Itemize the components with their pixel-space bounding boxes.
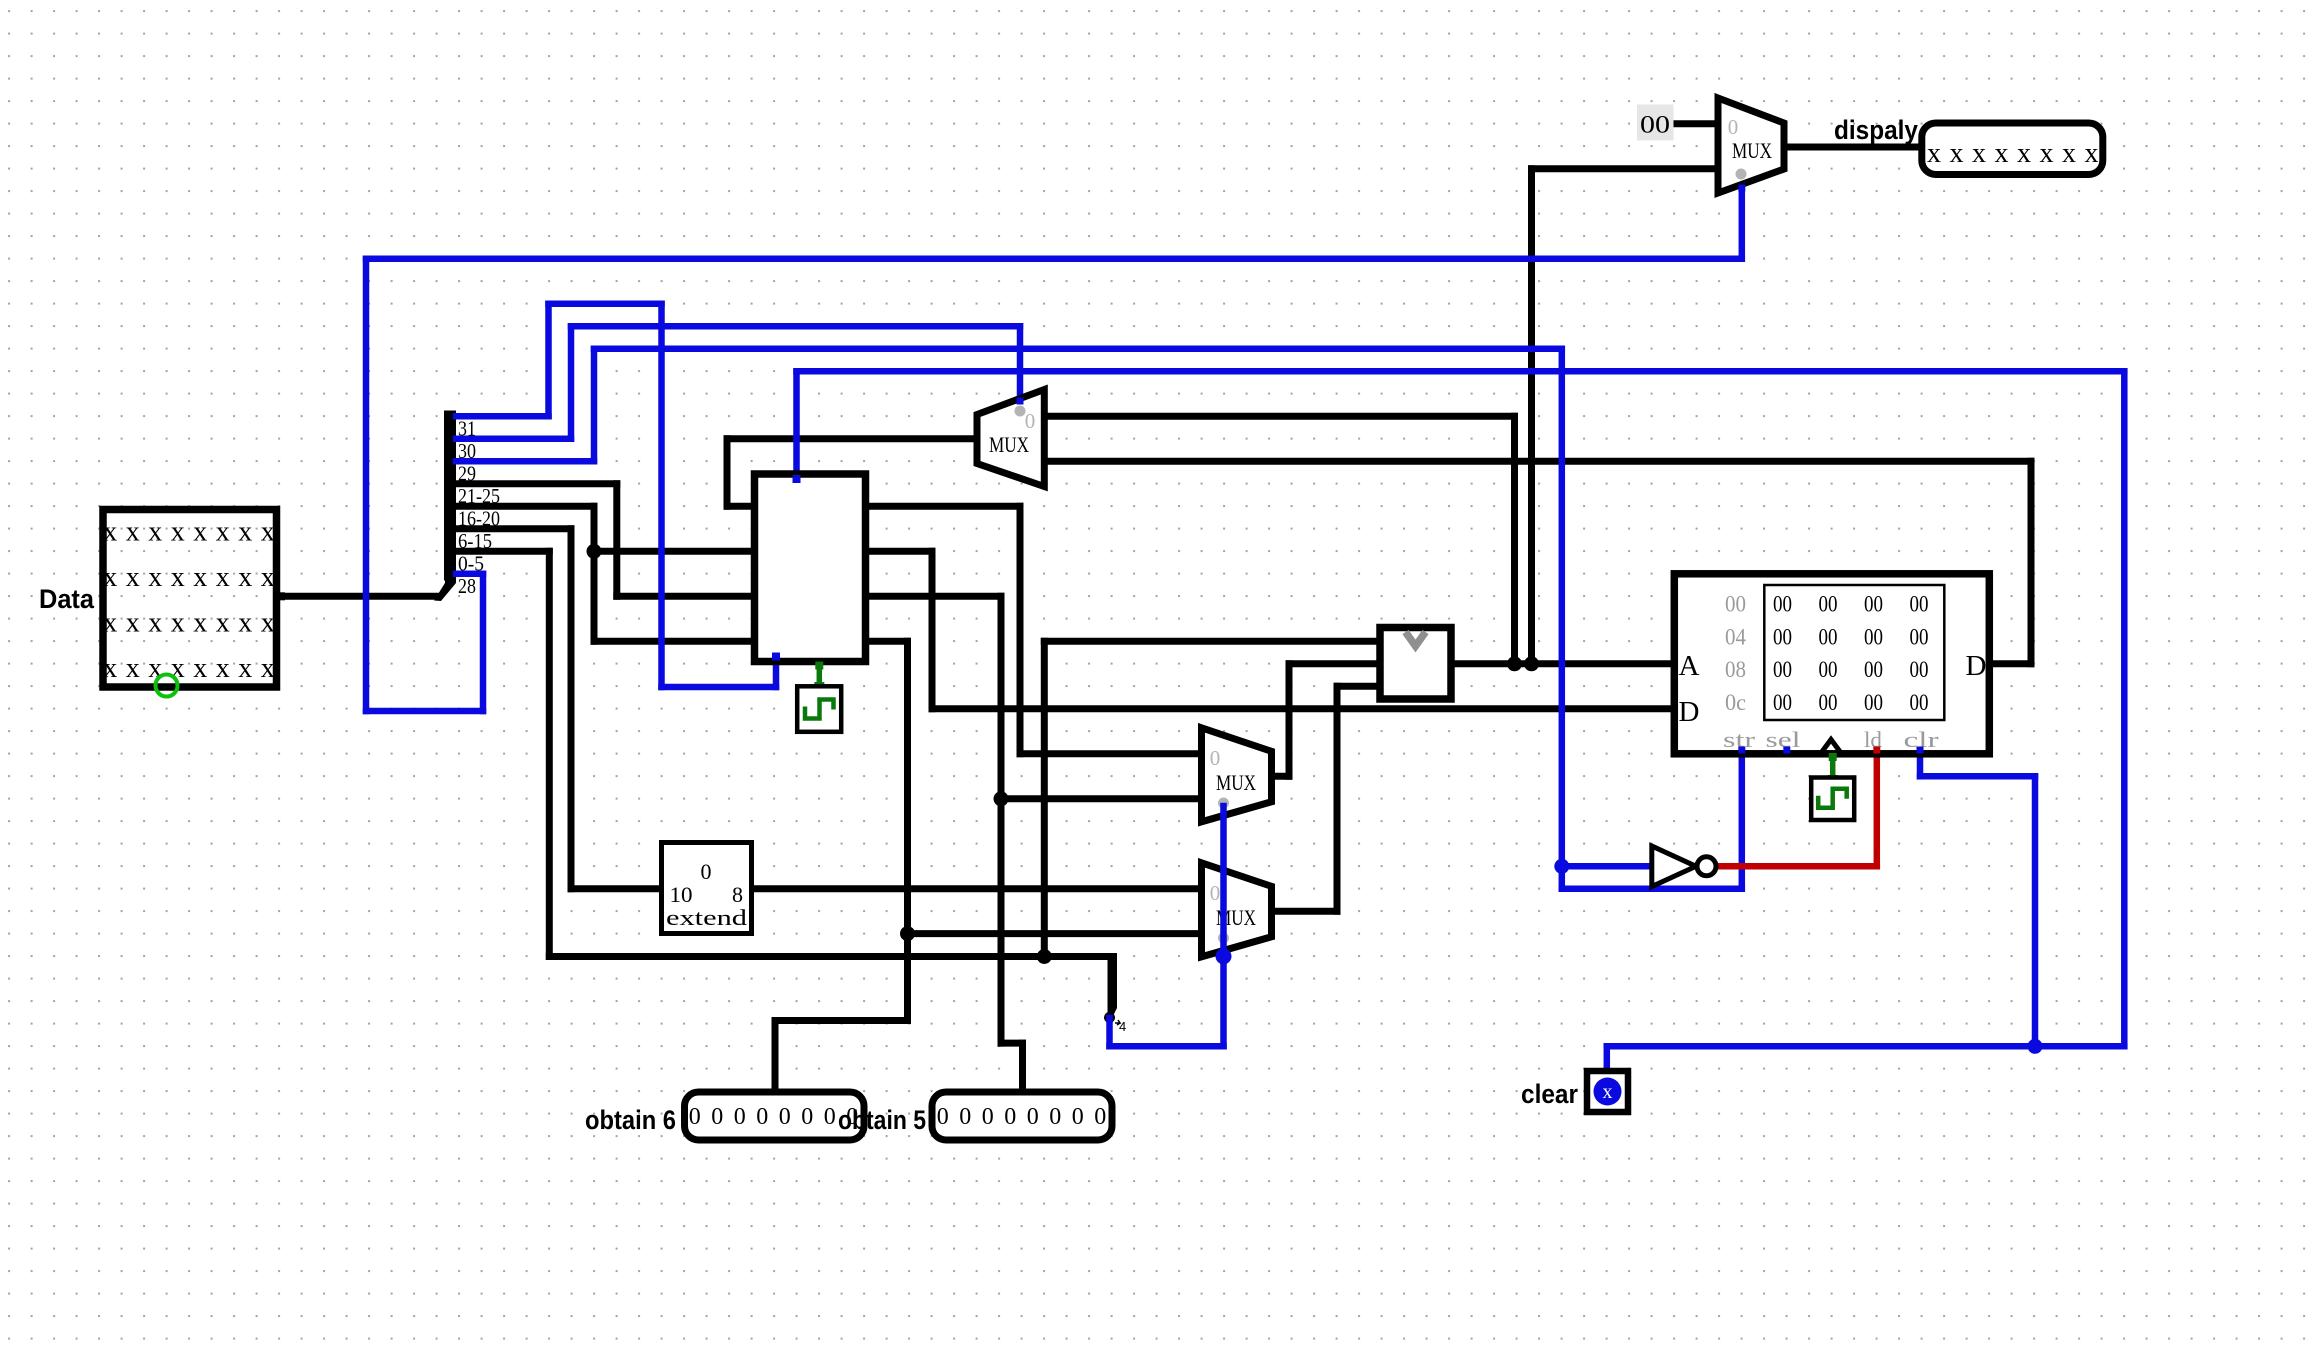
svg-text:00: 00 <box>1910 657 1929 682</box>
wire MUX M3 out right <box>1272 773 1290 780</box>
output pin obtain 6 box <box>685 1092 865 1140</box>
wire 21-25 to register in3 <box>617 593 755 600</box>
svg-text:0: 0 <box>1210 881 1221 905</box>
wire bit29 drop (blue) <box>1559 349 1566 889</box>
wire MUX M3 out to adder U2 inB <box>1289 660 1380 667</box>
wire bit28 drop (blue) <box>480 574 487 711</box>
wire MUX M2 out to register in1 <box>727 503 755 510</box>
svg-text:00: 00 <box>1864 657 1883 682</box>
svg-text:00: 00 <box>1910 624 1929 649</box>
node J5 (A-line junction 1) <box>1507 656 1522 671</box>
svg-text:08: 08 <box>1725 657 1746 682</box>
splitter branch 29 stub (blue) <box>456 458 594 465</box>
wire register out3 vertical <box>998 596 1005 1043</box>
svg-text:16-20: 16-20 <box>458 507 500 531</box>
input pin Data <box>103 510 277 688</box>
CLK2 pin nub (green) <box>1828 775 1838 785</box>
wire MUX M4 out vertical <box>1334 686 1341 911</box>
svg-text:x: x <box>1603 1081 1613 1103</box>
label bit-width 4 <box>1115 1020 1120 1025</box>
RAM clr pin nub (blue) <box>1917 747 1924 754</box>
RAM clock triangle <box>1821 740 1841 754</box>
svg-text:28: 28 <box>458 574 476 598</box>
wire out4 to obtain6 pin <box>772 1021 779 1091</box>
svg-text:0: 0 <box>1210 746 1221 770</box>
RAM contents table <box>1764 585 1944 720</box>
wire RAM D-out riser <box>2028 461 2035 664</box>
svg-text:0: 0 <box>701 859 712 884</box>
register block U1 <box>755 474 866 662</box>
svg-text:8: 8 <box>732 882 743 907</box>
splitter branch 30 stub (blue) <box>456 436 571 443</box>
output pin obtain 5 box <box>932 1092 1112 1140</box>
node J3 (out4 to M4 junction) <box>900 926 915 941</box>
svg-text:00: 00 <box>1819 690 1838 715</box>
svg-text:D: D <box>1966 650 1987 682</box>
svg-text:4: 4 <box>1119 1019 1126 1034</box>
splitter S1 spine <box>434 411 456 602</box>
U2 gray V mark <box>1406 632 1426 646</box>
wire bit31 top run (blue) <box>549 301 662 308</box>
wire out3 to obtain5 pin <box>1019 1043 1026 1090</box>
svg-text:00: 00 <box>1773 592 1792 617</box>
svg-text:00: 00 <box>1864 690 1883 715</box>
wire clear bottom run (blue) <box>1607 1043 2125 1050</box>
output pin dispaly box <box>1922 123 2103 175</box>
wire RAM clock stub (green) <box>1830 754 1836 781</box>
svg-text:00: 00 <box>1819 624 1838 649</box>
wire register out4 right <box>866 638 908 645</box>
U1 bottom pin nub (blue) <box>772 653 780 661</box>
svg-text:00: 00 <box>1910 592 1929 617</box>
wire 21-25 vertical <box>613 484 620 597</box>
svg-text:00: 00 <box>1773 690 1792 715</box>
wire node to NOT gate input (blue) <box>1562 863 1652 870</box>
wire register out3 right <box>866 593 1002 600</box>
wire RAM D-out stub <box>1989 660 2031 667</box>
wire select to width stub (blue) <box>1106 1018 1113 1046</box>
wire RAM clr drop (blue) <box>1917 754 1924 777</box>
svg-text:extend: extend <box>666 905 747 930</box>
RAM ld pin nub (red) <box>1873 747 1880 754</box>
svg-text:00: 00 <box>1819 592 1838 617</box>
wire MUX M2 out down <box>724 439 731 507</box>
wire 6-15 vertical <box>568 529 575 889</box>
svg-text:00: 00 <box>1864 592 1883 617</box>
wire bit30 riser (blue) <box>568 326 575 439</box>
MUX M2 <box>977 390 1044 487</box>
MUX M4 <box>1202 863 1272 957</box>
wire register clock stub (green) <box>817 662 823 691</box>
svg-text:0c: 0c <box>1725 690 1746 715</box>
wire MUX M4 out right <box>1272 908 1338 915</box>
splitter branch 0-5 stub <box>456 548 549 555</box>
CLK1 pin nub (green) <box>814 682 824 692</box>
wire clear top run (blue) <box>797 368 2125 375</box>
wire MUX M1 in1 riser <box>1528 169 1535 664</box>
wire clear riser (blue) <box>1604 1046 1611 1068</box>
splitter branch 28 stub (blue) <box>456 571 483 578</box>
wire register out2 to RAM D input <box>932 705 1674 712</box>
svg-text:MUX: MUX <box>1216 770 1256 795</box>
svg-text:sel: sel <box>1766 727 1801 752</box>
constant 00 <box>1637 105 1674 141</box>
clock CLK2 <box>1811 778 1854 821</box>
MUX M1 <box>1718 98 1784 193</box>
clock CLK1 <box>797 686 841 732</box>
wire MUX M1 output to display <box>1784 144 1922 151</box>
RAM str pin nub (blue) <box>1738 747 1745 754</box>
wire constant 00 to MUX M1 in0 <box>1673 120 1718 127</box>
wire MUX M3 out vertical <box>1286 664 1293 777</box>
wire RAM clr riser (blue) <box>2032 776 2039 1046</box>
wire register out2 right <box>866 548 933 555</box>
svg-text:00: 00 <box>1640 112 1670 139</box>
Data output nub <box>277 592 285 600</box>
node J7 (NOT input junction, blue) <box>1554 859 1569 874</box>
wire adder U2 out (A-line) to RAM A <box>1451 660 1674 667</box>
splitter branch 21-25 stub <box>456 480 617 487</box>
wire MUX M1 select riser (blue) <box>1739 190 1746 259</box>
wire MUX M2 out left <box>727 435 977 442</box>
wire out4 jog left <box>775 1017 908 1024</box>
node W (width-4 stub to MUX select net) <box>1108 953 1118 1021</box>
wire Data output to splitter <box>281 593 437 600</box>
wire clear right riser (blue) <box>2121 371 2128 1046</box>
RAM block U4 <box>1674 574 1989 754</box>
adder unit U2 <box>1380 628 1451 700</box>
wire MUX M1 in1 line <box>1532 165 1719 172</box>
input pin clear <box>1587 1071 1628 1112</box>
U1 top clear pin nub (blue) <box>793 475 801 483</box>
svg-text:0: 0 <box>1728 115 1739 139</box>
svg-text:0: 0 <box>1025 409 1036 433</box>
svg-text:21-25: 21-25 <box>458 484 500 508</box>
extend unit U3 <box>662 843 752 934</box>
node J8 (clear line junction, blue) <box>2028 1039 2043 1054</box>
svg-text:obtain 6: obtain 6 <box>585 1105 676 1135</box>
svg-text:obtain 5: obtain 5 <box>838 1105 926 1135</box>
node J6 (A-line junction 2) <box>1524 656 1539 671</box>
NOT gate G1 <box>1652 846 1696 887</box>
node J4 (0-5 line junction) <box>1037 949 1052 964</box>
wire clear to register top pin (blue) <box>793 371 800 478</box>
node J2 (out3 to M3 junction) <box>994 791 1009 806</box>
svg-text:A: A <box>1679 650 1700 682</box>
wire out3 jog <box>1001 1040 1023 1047</box>
wire register bottom pin stub (blue) <box>773 657 780 687</box>
wire register out1 right <box>866 503 1021 510</box>
svg-text:dispaly: dispaly <box>1834 115 1918 145</box>
wire MUX select column (blue) <box>1220 806 1227 1046</box>
wire bit28 long riser (blue) <box>363 259 370 711</box>
svg-text:04: 04 <box>1725 624 1746 649</box>
wire MUX M2 in1 line <box>1044 458 2031 465</box>
wire to RAM str run (blue) <box>1562 886 1742 893</box>
splitter branch 31 stub (blue) <box>456 413 549 420</box>
svg-text:00: 00 <box>1819 657 1838 682</box>
wire register out1 to MUX M3 in0 <box>1020 750 1202 757</box>
wire node to MUX M4 in1 <box>908 930 1202 937</box>
svg-text:00: 00 <box>1910 690 1929 715</box>
wire MUX M4 out to adder U2 inC <box>1337 683 1380 690</box>
node J1 (16-20/0-5 junction) <box>587 544 602 559</box>
wire NOT output to RAM ld (red) <box>1715 863 1877 870</box>
wire RAM ld riser (red) <box>1874 754 1881 867</box>
svg-text:10: 10 <box>670 882 693 907</box>
wire bit31 to register bottom (blue) <box>662 684 777 691</box>
svg-text:6-15: 6-15 <box>458 529 492 553</box>
wire MUX M2 in0 line <box>1044 413 1514 420</box>
wire bit31 down (blue) <box>658 304 665 687</box>
wire RAM str riser (blue) <box>1739 754 1746 889</box>
svg-text:00: 00 <box>1725 592 1746 617</box>
wire 16-20 vertical <box>591 506 598 641</box>
svg-text:29: 29 <box>458 462 476 486</box>
wire register out1 vertical <box>1017 506 1024 754</box>
svg-text:31: 31 <box>458 417 476 441</box>
wire to register in4 <box>594 638 755 645</box>
wire M2 in0 riser <box>1511 416 1518 664</box>
svg-text:clear: clear <box>1521 1079 1578 1109</box>
U1 clock pin nub (green) <box>815 662 823 670</box>
svg-text:MUX: MUX <box>989 432 1029 457</box>
wire bit28 bottom run (blue) <box>366 708 483 715</box>
svg-text:00: 00 <box>1773 657 1792 682</box>
wire 6-15 to extend input <box>571 885 662 892</box>
svg-text:00: 00 <box>1773 624 1792 649</box>
M2 select nub (blue) <box>1017 398 1024 405</box>
splitter branch 16-20 stub <box>456 503 594 510</box>
MUX M3 <box>1202 728 1272 822</box>
svg-text:MUX: MUX <box>1732 138 1772 163</box>
svg-text:Data: Data <box>39 584 95 614</box>
wire extend output to MUX M4 in0 <box>752 885 1202 892</box>
wire node to register in2 <box>594 548 755 555</box>
wire node to MUX M3 in1 <box>1001 795 1202 802</box>
wire MUX M2 select drop (blue) <box>1017 326 1024 404</box>
wire register out2 vertical <box>929 551 936 709</box>
Data pin green marker <box>156 675 178 697</box>
wire bit28 top run to MUX M1 select (blue) <box>366 256 1742 263</box>
wire bit29 run (blue) <box>594 346 1562 353</box>
node J9 (MUX M4 select junction, blue) <box>1216 948 1232 964</box>
svg-text:30: 30 <box>458 439 476 463</box>
wire RAM clr run (blue) <box>1920 773 2035 780</box>
RAM clock pin nub (green) <box>1829 753 1837 761</box>
wire bit29 riser (blue) <box>591 349 598 462</box>
wire register out4 vertical <box>904 641 911 1020</box>
wire inA vertical <box>1041 641 1048 956</box>
M1 select dot <box>1736 169 1747 180</box>
M4 select dot <box>1218 933 1229 944</box>
RAM sel pin nub (blue) <box>1783 747 1790 754</box>
M2 select dot <box>1015 406 1026 417</box>
splitter branch 6-15 stub <box>456 525 571 532</box>
svg-text:D: D <box>1679 696 1700 728</box>
M1 select nub (blue) <box>1738 185 1745 192</box>
wire bus to adder U2 inA <box>1044 638 1380 645</box>
wire bit31 riser (blue) <box>545 304 552 417</box>
wire bit30 run to MUX M2 select (blue) <box>571 323 1020 330</box>
svg-text:00: 00 <box>1864 624 1883 649</box>
wire select bottom run (blue) <box>1110 1043 1224 1050</box>
wire 0-5 vertical <box>546 551 553 956</box>
wire 0-5 run to shifter <box>549 953 1112 960</box>
M3 select dot <box>1218 798 1229 809</box>
